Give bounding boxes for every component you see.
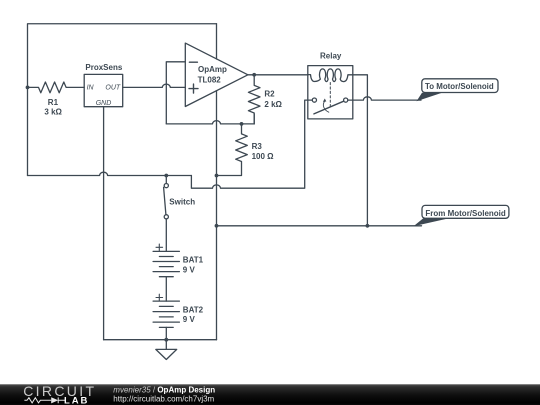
svg-text:3 kΩ: 3 kΩ xyxy=(44,108,62,117)
svg-text:GND: GND xyxy=(96,100,112,107)
proximity sensor ProxSens box xyxy=(84,74,123,106)
svg-text:BAT2: BAT2 xyxy=(183,305,204,314)
flag From Motor/Solenoid xyxy=(414,219,449,227)
svg-text:IN: IN xyxy=(87,85,95,92)
wire feedback bottom (hop at x=216.5) xyxy=(166,114,254,124)
svg-text:From Motor/Solenoid: From Motor/Solenoid xyxy=(425,209,506,218)
svg-text:TL082: TL082 xyxy=(198,75,222,84)
svg-text:OUT: OUT xyxy=(105,85,121,92)
relay coil L xyxy=(308,69,353,82)
svg-text:BAT1: BAT1 xyxy=(183,256,204,265)
wire feedback minus input loop xyxy=(166,62,185,124)
relay K1 box xyxy=(308,66,353,119)
relay arrow xyxy=(323,101,328,112)
svg-text:9 V: 9 V xyxy=(183,315,196,324)
footer bar xyxy=(0,384,540,405)
node switch top junction xyxy=(164,174,168,178)
wire ProxSens OUT to opamp + input (hop at x=166.3) xyxy=(123,84,186,87)
svg-text:2 kΩ: 2 kΩ xyxy=(264,100,282,109)
resistor R1 xyxy=(28,82,85,93)
relay lever xyxy=(314,101,344,114)
footer credits xyxy=(113,386,215,404)
node From-wire junction on V- line xyxy=(215,224,219,228)
svg-text:100 Ω: 100 Ω xyxy=(252,152,275,161)
svg-text:Switch: Switch xyxy=(169,197,195,206)
wire to relay common (hop at x=216.5) xyxy=(191,100,312,188)
op-amp U1 triangle xyxy=(185,43,248,106)
svg-text:mvenier35 / OpAmp Design: mvenier35 / OpAmp Design xyxy=(113,386,215,395)
ground symbol xyxy=(156,340,177,360)
node From/coil junction xyxy=(366,224,370,228)
node opamp output / R2 top xyxy=(252,73,256,77)
battery BAT1 xyxy=(156,244,163,251)
node R3 top junction xyxy=(240,122,244,126)
battery BAT2 xyxy=(156,294,163,301)
flag To Motor/Solenoid xyxy=(417,93,443,102)
wire relay contact to To flag (hop at x=367.4) xyxy=(348,97,421,100)
wire opamp output xyxy=(248,74,308,76)
wire relay coil out to From rail xyxy=(353,75,368,226)
svg-text:http://circuitlab.com/ch7vj3m: http://circuitlab.com/ch7vj3m xyxy=(113,395,214,404)
resistor R3 xyxy=(217,124,248,176)
relay dashed actuator line xyxy=(329,83,331,108)
wire battery rail (hop at x=103.6) xyxy=(28,172,192,175)
svg-text:OpAmp: OpAmp xyxy=(198,65,227,74)
node ground junction xyxy=(164,338,168,342)
node R1 left junction xyxy=(26,86,30,90)
switch SW1 xyxy=(164,176,167,252)
op-amp minus sign xyxy=(189,61,197,63)
wire ProxSens GND pin down xyxy=(103,107,105,340)
svg-text:To Motor/Solenoid: To Motor/Solenoid xyxy=(425,82,494,91)
op-amp plus sign xyxy=(189,84,198,93)
svg-text:R2: R2 xyxy=(264,90,275,99)
svg-text:ProxSens: ProxSens xyxy=(85,63,122,72)
wire opamp V+ pin xyxy=(216,24,218,59)
wire left supply loop xyxy=(28,24,217,176)
wire opamp V- pin down long vertical xyxy=(216,91,218,340)
wire From Motor/Solenoid xyxy=(217,225,422,227)
footer CircuitLab logo xyxy=(23,383,96,405)
relay contact pivots xyxy=(312,98,316,102)
svg-text:Relay: Relay xyxy=(320,51,342,60)
resistor R2 xyxy=(248,75,260,124)
svg-text:R1: R1 xyxy=(48,98,59,107)
svg-text:9 V: 9 V xyxy=(183,266,196,275)
node V- pin / R3 bottom junction xyxy=(215,174,219,178)
svg-text:R3: R3 xyxy=(252,142,263,151)
wire ground rail xyxy=(104,339,217,341)
svg-text:LAB: LAB xyxy=(64,395,89,405)
